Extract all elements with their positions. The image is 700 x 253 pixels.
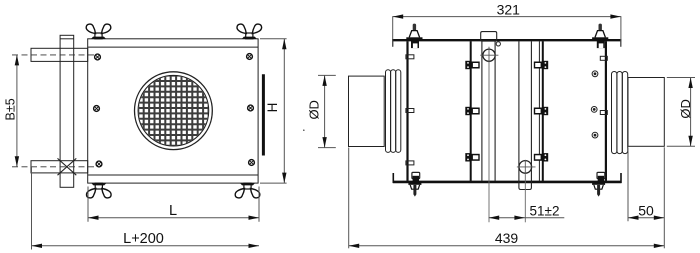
clamps on divider 1	[465, 61, 479, 162]
bottom spring bolt left	[408, 182, 421, 196]
panel screws right section	[591, 71, 598, 138]
svg-text:ØD: ØD	[678, 99, 693, 119]
bottom pipe centerline	[12, 166, 97, 168]
top spring bolt right	[592, 24, 608, 49]
bracket 1 damper circle	[483, 49, 495, 61]
body left wall	[406, 41, 408, 181]
dimension L	[88, 187, 259, 222]
dimension 51±2	[489, 217, 565, 219]
dimension L+200	[32, 167, 260, 250]
svg-text:321: 321	[497, 2, 521, 18]
center bracket 1	[481, 32, 501, 181]
grille outer ring	[135, 72, 213, 150]
weld cross X	[58, 158, 77, 175]
bottom lip	[393, 173, 622, 183]
top inlet pipe	[31, 48, 88, 61]
dimension 50	[628, 148, 664, 222]
svg-text:B±5: B±5	[4, 98, 18, 120]
left mounting bar	[60, 35, 74, 187]
divider 1	[470, 41, 472, 181]
left duct ribs	[386, 70, 391, 153]
top lip	[392, 39, 621, 47]
dimension H	[260, 39, 287, 183]
grille inner ring	[138, 75, 209, 146]
dimension B±5	[16, 55, 18, 167]
left duct pipe	[349, 76, 385, 146]
screws on face	[94, 54, 255, 167]
bracket 1 axis	[488, 64, 490, 222]
body right wall	[605, 41, 607, 181]
bracket 2 axis	[524, 174, 526, 222]
bottom spring bolt right	[592, 182, 605, 196]
wall clips right	[600, 56, 607, 114]
wing nut top-right	[237, 24, 262, 39]
lip latch right	[597, 172, 605, 181]
svg-text:50: 50	[638, 202, 654, 218]
svg-text:ØD: ØD	[307, 100, 322, 120]
top pipe centerline	[12, 54, 97, 56]
wing nut bottom-left	[86, 183, 111, 198]
wing nut bottom-right	[235, 183, 260, 198]
svg-text:439: 439	[495, 230, 519, 246]
svg-text:H: H	[265, 103, 280, 113]
dimension ØD (right view)	[667, 78, 695, 147]
wing nut top-left	[86, 24, 111, 39]
svg-text:L: L	[169, 203, 177, 219]
right duct pipe	[628, 78, 664, 147]
svg-text:L+200: L+200	[123, 231, 164, 247]
dimension 439	[349, 147, 665, 248]
dimension 321	[393, 16, 621, 46]
bracket 2 damper circle	[519, 161, 532, 174]
rear spigot edge	[262, 74, 265, 155]
lip latch left	[412, 172, 420, 181]
box body	[88, 39, 258, 183]
center bracket 2	[519, 41, 532, 189]
divider 2	[538, 41, 540, 181]
bottom inlet pipe	[31, 161, 88, 173]
top spring bolt left	[406, 24, 422, 49]
wall clips left	[406, 55, 414, 165]
dimension ØD (left view)	[318, 75, 336, 147]
grille mesh	[137, 75, 210, 147]
svg-text:51±2: 51±2	[530, 203, 560, 218]
right duct ribs	[612, 72, 617, 154]
clamps on divider 2	[534, 61, 548, 162]
